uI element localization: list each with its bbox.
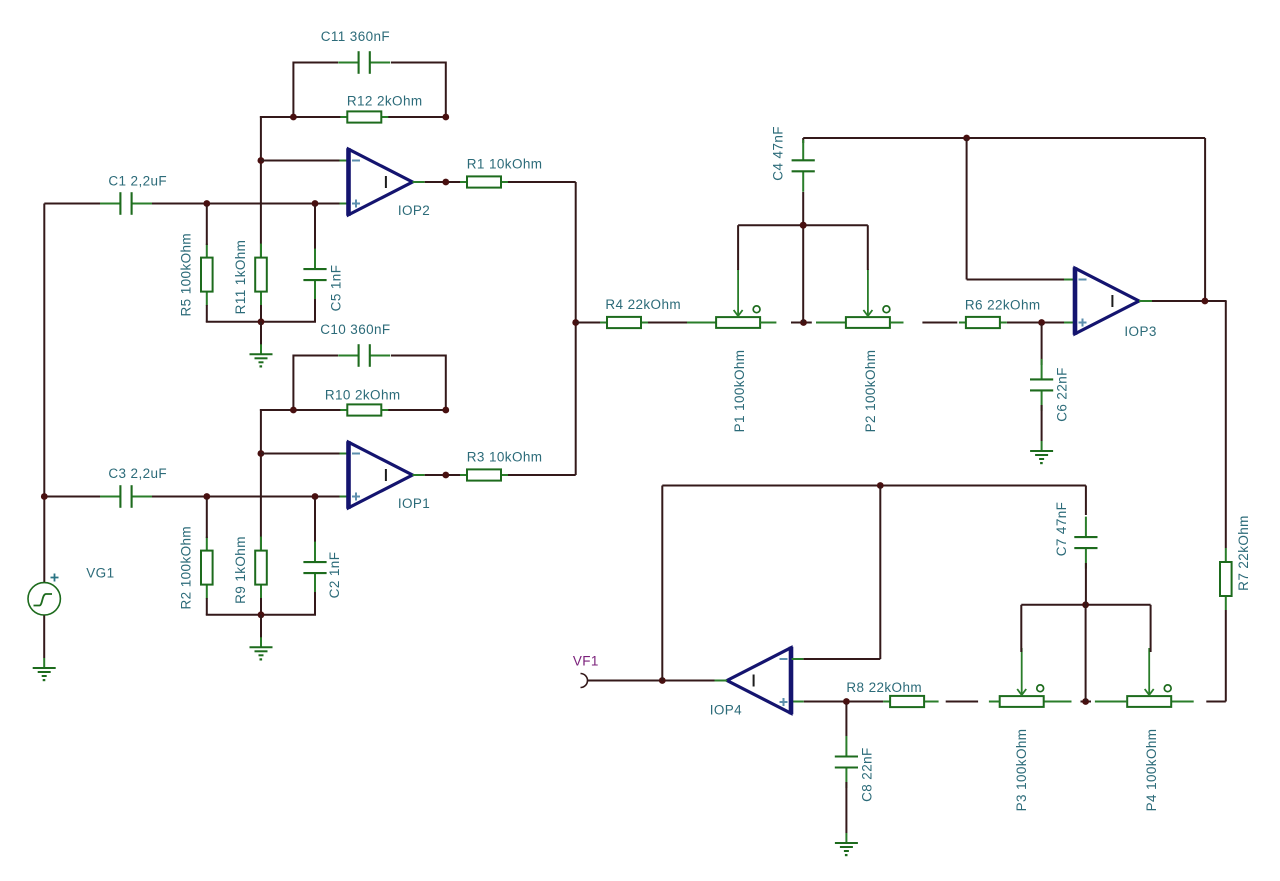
junction <box>442 179 449 186</box>
wire <box>206 321 316 323</box>
junction <box>258 611 265 618</box>
wire <box>1021 604 1150 606</box>
wire <box>445 62 447 118</box>
wire <box>314 206 316 251</box>
wire <box>340 453 348 455</box>
wire <box>151 203 339 205</box>
junction <box>659 677 666 684</box>
wire <box>293 355 338 357</box>
junction <box>877 482 884 489</box>
junction <box>290 114 297 121</box>
potentiometer P2 100kOhm <box>846 269 890 328</box>
wire <box>413 181 425 183</box>
svg-text:C6 22nF: C6 22nF <box>1055 367 1070 422</box>
potentiometer P3 100kOhm <box>1000 648 1044 707</box>
junction <box>41 493 48 500</box>
wire <box>1064 322 1074 324</box>
wire <box>260 615 262 638</box>
wire <box>891 322 904 324</box>
wire <box>1041 405 1043 441</box>
svg-text:R2 100kOhm: R2 100kOhm <box>178 526 193 610</box>
resistor R12 2kOhm <box>340 111 388 122</box>
junction <box>258 157 265 164</box>
wire <box>845 782 847 833</box>
svg-text:C7 47nF: C7 47nF <box>1054 502 1069 557</box>
resistor R4 22kOhm <box>600 317 648 328</box>
wire <box>206 598 208 615</box>
svg-text:R8 22kOhm: R8 22kOhm <box>846 680 922 695</box>
ground <box>250 344 273 367</box>
wire <box>44 496 100 498</box>
wire <box>1043 701 1072 703</box>
wire <box>260 322 262 345</box>
svg-text:IOP2: IOP2 <box>398 203 430 218</box>
svg-text:R5 100kOhm: R5 100kOhm <box>178 233 193 317</box>
svg-text:P3 100kOhm: P3 100kOhm <box>1014 729 1029 812</box>
wire <box>1095 701 1127 703</box>
wire <box>292 62 294 118</box>
resistor R8 22kOhm <box>883 696 931 707</box>
junction <box>800 319 807 326</box>
capacitor C10 360nF <box>338 344 390 367</box>
junction <box>258 318 265 325</box>
capacitor C6 22nF <box>1030 359 1053 411</box>
wire <box>792 658 804 660</box>
wire <box>260 598 262 615</box>
wire <box>387 409 446 411</box>
svg-text:C3 2,2uF: C3 2,2uF <box>108 466 167 481</box>
wire <box>588 680 715 682</box>
svg-text:IOP4: IOP4 <box>710 703 742 718</box>
junction <box>800 222 807 229</box>
svg-text:C11 360nF: C11 360nF <box>321 29 390 44</box>
voltage generator VG1 <box>28 574 60 616</box>
potentiometer P1 100kOhm <box>716 269 760 328</box>
wire <box>43 204 45 584</box>
resistor R6 22kOhm <box>959 317 1007 328</box>
wire <box>1150 605 1152 652</box>
wire <box>1225 301 1227 548</box>
svg-text:IOP1: IOP1 <box>398 496 430 511</box>
wire <box>260 116 341 118</box>
wire <box>206 305 208 322</box>
svg-text:C5 1nF: C5 1nF <box>328 265 343 312</box>
junction <box>800 222 807 229</box>
wire <box>1206 701 1226 703</box>
junction <box>1202 298 1209 305</box>
svg-text:C2 1nF: C2 1nF <box>327 552 342 599</box>
wire <box>1085 605 1087 702</box>
wire <box>151 496 339 498</box>
capacitor C7 47nF <box>1074 517 1097 569</box>
wire <box>715 680 728 682</box>
wire <box>738 224 868 226</box>
wire <box>737 225 739 270</box>
capacitor C8 22nF <box>835 736 858 788</box>
resistor R5 100kOhm <box>201 244 213 306</box>
wire <box>1152 300 1227 302</box>
wire <box>803 137 1205 139</box>
wire <box>340 496 348 498</box>
wire <box>261 160 340 162</box>
wire <box>867 225 869 270</box>
wire <box>292 355 294 411</box>
svg-text:C4 47nF: C4 47nF <box>771 126 786 181</box>
wire <box>1085 486 1087 516</box>
op-amp IOP1 <box>349 441 413 509</box>
junction <box>1082 601 1089 608</box>
junction <box>442 114 449 121</box>
wire <box>802 138 804 143</box>
wire <box>445 355 447 411</box>
wire <box>508 181 576 183</box>
wire <box>575 182 577 475</box>
wire <box>576 322 600 324</box>
svg-text:P4 100kOhm: P4 100kOhm <box>1144 729 1159 812</box>
wire <box>802 192 804 323</box>
svg-text:P2 100kOhm: P2 100kOhm <box>863 350 878 433</box>
capacitor C5 1nF <box>303 249 326 301</box>
wire <box>662 485 1086 487</box>
svg-text:R11 1kOhm: R11 1kOhm <box>233 240 248 315</box>
junction <box>203 200 210 207</box>
wire <box>1204 138 1206 301</box>
wire <box>1170 701 1193 703</box>
svg-text:R4 22kOhm: R4 22kOhm <box>605 297 681 312</box>
resistor R9 1kOhm <box>255 537 267 599</box>
wire <box>648 322 687 324</box>
wire <box>314 499 316 544</box>
wire <box>206 499 208 539</box>
junction <box>442 407 449 414</box>
junction <box>843 698 850 705</box>
svg-text:VF1: VF1 <box>573 654 599 669</box>
junction <box>1038 319 1045 326</box>
wire <box>967 279 1064 281</box>
wire <box>1225 610 1227 702</box>
wire <box>1041 324 1043 365</box>
wire <box>1020 605 1022 652</box>
capacitor C11 360nF <box>338 51 390 74</box>
svg-text:C10 360nF: C10 360nF <box>320 322 390 337</box>
op-amp IOP3 <box>1075 267 1139 335</box>
svg-text:VG1: VG1 <box>86 566 114 581</box>
wire <box>1085 563 1087 605</box>
ground <box>1030 441 1053 464</box>
wire <box>260 409 262 551</box>
capacitor C3 2,2uF <box>100 485 152 508</box>
wire <box>760 322 776 324</box>
wire <box>1007 322 1064 324</box>
wire <box>816 322 846 324</box>
op-amp IOP4 <box>727 647 791 715</box>
wire <box>425 181 460 183</box>
output terminal VF1 <box>581 674 588 688</box>
wire <box>413 474 425 476</box>
resistor R3 10kOhm <box>460 469 508 480</box>
svg-text:C8 22nF: C8 22nF <box>860 747 875 802</box>
wire <box>966 138 968 280</box>
svg-text:R6 22kOhm: R6 22kOhm <box>965 298 1041 313</box>
junction <box>1082 698 1089 705</box>
junction <box>258 450 265 457</box>
resistor R10 2kOhm <box>340 404 388 415</box>
svg-text:R1 10kOhm: R1 10kOhm <box>467 157 543 172</box>
wire <box>845 704 847 737</box>
resistor R2 100kOhm <box>201 537 213 599</box>
wire <box>44 203 100 205</box>
wire <box>260 305 262 322</box>
wire <box>803 658 880 660</box>
junction <box>290 407 297 414</box>
svg-text:R10 2kOhm: R10 2kOhm <box>325 388 401 403</box>
wire <box>293 62 338 64</box>
ground <box>33 658 56 681</box>
capacitor C4 47nF <box>792 140 815 192</box>
wire <box>661 486 663 681</box>
svg-text:P1 100kOhm: P1 100kOhm <box>732 350 747 433</box>
svg-text:R3 10kOhm: R3 10kOhm <box>467 450 543 465</box>
svg-text:R9 1kOhm: R9 1kOhm <box>233 536 248 604</box>
wire <box>314 592 316 615</box>
wire <box>791 322 812 324</box>
wire <box>792 701 804 703</box>
junction <box>203 493 210 500</box>
wire <box>804 701 883 703</box>
wire <box>261 453 340 455</box>
wire <box>508 474 576 476</box>
junction <box>572 319 579 326</box>
wire <box>1064 279 1074 281</box>
wire <box>425 474 460 476</box>
wire <box>687 322 716 324</box>
wire <box>946 701 978 703</box>
svg-text:C1 2,2uF: C1 2,2uF <box>108 174 167 189</box>
ground <box>250 637 273 660</box>
resistor R11 1kOhm <box>255 244 267 306</box>
wire <box>206 206 208 246</box>
ground <box>835 833 858 856</box>
wire <box>260 116 262 258</box>
capacitor C2 1nF <box>303 542 326 594</box>
svg-text:IOP3: IOP3 <box>1124 324 1156 339</box>
wire <box>206 614 316 616</box>
resistor R7 22kOhm <box>1220 548 1232 610</box>
wire <box>314 299 316 322</box>
wire <box>922 322 957 324</box>
svg-text:R7 22kOhm: R7 22kOhm <box>1236 515 1251 591</box>
junction <box>312 493 319 500</box>
wire <box>340 160 348 162</box>
svg-text:R12 2kOhm: R12 2kOhm <box>347 94 423 109</box>
wire <box>1139 300 1152 302</box>
op-amp IOP2 <box>349 148 413 216</box>
capacitor C1 2,2uF <box>100 192 152 215</box>
wire <box>387 116 446 118</box>
wire <box>989 701 1000 703</box>
junction <box>442 472 449 479</box>
wire <box>930 701 939 703</box>
wire <box>260 409 341 411</box>
wire <box>1081 701 1092 703</box>
resistor R1 10kOhm <box>460 176 508 187</box>
potentiometer P4 100kOhm <box>1127 648 1171 707</box>
wire <box>43 615 45 658</box>
junction <box>312 200 319 207</box>
wire <box>879 486 881 660</box>
wire <box>340 203 348 205</box>
junction <box>963 135 970 142</box>
